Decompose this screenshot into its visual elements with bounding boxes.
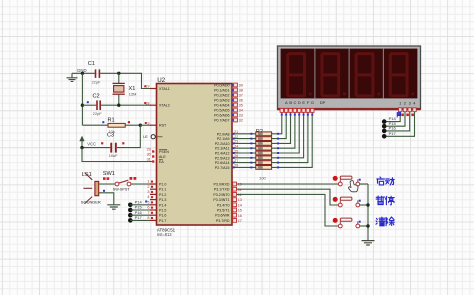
svg-text:16: 16 <box>238 214 242 218</box>
junction C2 tap <box>81 104 84 107</box>
svg-text:28: 28 <box>234 164 238 168</box>
svg-text:P3.1/TXD: P3.1/TXD <box>214 188 230 192</box>
wire sounder top pin to SW1 <box>99 183 115 185</box>
svg-text:12M: 12M <box>129 91 137 96</box>
node P15 terminal (display side) <box>382 121 397 129</box>
svg-text:33: 33 <box>239 114 243 118</box>
wire rail to C2 <box>82 104 96 106</box>
wire sounder bottom pin to ground <box>99 193 114 205</box>
wire digit4 to P17 terminal <box>384 112 414 137</box>
wire RST node down to C3 <box>117 125 140 147</box>
pin P2.2 pin23 wire to R2 <box>232 140 256 145</box>
node P15 terminal (chip side) <box>128 205 150 213</box>
wire P3.1 to button2 <box>237 189 339 205</box>
pin P3.4 pin14 <box>233 203 242 208</box>
pin P3.7 pin17 <box>233 219 242 224</box>
label AT89C51 <box>157 227 176 237</box>
pin P2.4 pin25 wire to R2 <box>232 149 256 154</box>
pin P2.7 pin28 wire to R2 <box>232 164 256 169</box>
svg-text:35: 35 <box>239 104 243 108</box>
push button SW3 <box>333 197 360 207</box>
state dot sounder <box>103 190 105 192</box>
wire C2 to XTAL2 <box>101 104 151 106</box>
svg-text:P0.4/AD4: P0.4/AD4 <box>214 104 229 108</box>
wire VCC to C3 <box>82 147 110 149</box>
svg-text:6: 6 <box>147 206 149 210</box>
state markers digit wires <box>397 113 414 118</box>
svg-text:XTAL1: XTAL1 <box>159 87 170 91</box>
pin P2.0 pin21 wire to R2 <box>232 130 256 135</box>
pin P1.5 pin6 <box>147 206 156 210</box>
svg-text:10: 10 <box>238 183 242 187</box>
wire button3 to rail <box>359 221 368 226</box>
svg-text:E: E <box>302 100 305 105</box>
wire button2 to rail <box>359 200 368 205</box>
pin XTAL1 pin19 <box>144 85 156 89</box>
wire R2.7 to display pin <box>272 112 308 163</box>
pin P3.3 pin13 <box>233 198 242 203</box>
svg-text:P17: P17 <box>389 131 397 136</box>
crystal X1 12M <box>113 73 137 105</box>
svg-text:38: 38 <box>239 89 243 93</box>
svg-text:15: 15 <box>238 209 242 213</box>
svg-text:8: 8 <box>147 216 149 220</box>
label qidong (start) <box>377 177 394 185</box>
junction VCC/C3 <box>80 146 83 149</box>
svg-text:100: 100 <box>259 175 266 180</box>
svg-text:10uF: 10uF <box>109 153 118 158</box>
pin P3.1 pin11 <box>233 187 242 192</box>
junction crystal top <box>117 72 120 75</box>
svg-text:C2: C2 <box>93 94 100 100</box>
pin P0.2 pin37 unconnected <box>232 93 243 98</box>
svg-text:P3.2/INT0: P3.2/INT0 <box>213 193 229 197</box>
wire C1 to XTAL1 corner <box>100 73 151 88</box>
svg-text:VCC: VCC <box>87 142 96 147</box>
svg-text:23: 23 <box>234 140 238 144</box>
state dot C2 <box>87 101 89 103</box>
state dot P14 chip side <box>145 201 147 203</box>
svg-text:P3.6/WR: P3.6/WR <box>215 214 230 218</box>
ground sounder <box>107 205 120 209</box>
wire button1 to rail <box>359 179 368 184</box>
svg-text:XTAL2: XTAL2 <box>159 104 170 108</box>
svg-text:U2: U2 <box>157 77 165 84</box>
ground buttons <box>362 241 375 245</box>
svg-text:SOUNDER: SOUNDER <box>81 200 101 205</box>
svg-text:R1: R1 <box>108 117 115 123</box>
resistor R2.5 <box>256 151 272 155</box>
wire SW1 to P1.0 <box>131 183 150 185</box>
state dots SW1 <box>103 177 136 180</box>
resistor network R2 label <box>256 129 263 135</box>
svg-text:P3.0/RXD: P3.0/RXD <box>214 183 230 187</box>
IC U2 AT89C51 body <box>157 77 233 225</box>
pin P1.6 pin7 <box>147 211 156 215</box>
svg-text:P1.2: P1.2 <box>159 193 166 197</box>
node GND (label) <box>77 68 87 73</box>
wire R2.2 to display pin <box>272 112 287 139</box>
svg-text:nst=813: nst=813 <box>157 232 172 237</box>
pin P1.4 pin5 <box>147 200 156 204</box>
state dots C3 <box>101 142 124 144</box>
svg-text:P0.2/AD2: P0.2/AD2 <box>214 94 229 98</box>
pin P2.1 pin22 wire to R2 <box>232 135 256 140</box>
push button SW4 <box>333 218 360 228</box>
wire VCC to EA pin31 <box>82 148 152 162</box>
svg-text:P0.6/AD6: P0.6/AD6 <box>214 114 229 118</box>
svg-text:27: 27 <box>234 159 238 163</box>
pin P0.0 pin39 unconnected <box>232 83 243 88</box>
pin P0.6 pin33 unconnected <box>232 113 243 118</box>
pin P0.4 pin35 unconnected <box>232 103 243 108</box>
display digit 2 segments <box>320 52 345 97</box>
svg-text:P0.3/AD3: P0.3/AD3 <box>214 99 229 103</box>
resistor R2.7 <box>256 161 272 165</box>
pin P2.6 pin27 wire to R2 <box>232 159 256 164</box>
display digit 3 segments <box>355 52 380 97</box>
resistor R2.6 <box>256 156 272 160</box>
resistor R2.8 <box>256 166 272 170</box>
display digit 4 segments <box>389 52 414 97</box>
pin 30 <box>147 153 155 158</box>
wire digit1 to P14 terminal <box>384 112 400 122</box>
svg-text:29: 29 <box>147 148 151 152</box>
svg-text:P1.7: P1.7 <box>159 219 166 223</box>
push button SW2 <box>333 176 360 186</box>
pin P1.1 pin2 <box>147 185 156 189</box>
node P16 terminal (chip side) <box>128 210 150 218</box>
svg-text:P1.1: P1.1 <box>159 188 166 192</box>
label qingchu (clear) <box>376 217 394 226</box>
capacitor C2 <box>93 94 103 116</box>
svg-text:17: 17 <box>238 219 242 223</box>
pin 31 <box>147 158 155 163</box>
svg-text:P3.5/T1: P3.5/T1 <box>217 209 230 213</box>
svg-text:4: 4 <box>147 195 149 199</box>
svg-text:D: D <box>298 100 301 105</box>
label R2 value 100 <box>259 175 266 180</box>
svg-text:30: 30 <box>147 153 151 157</box>
wire GND to C1 <box>72 72 95 74</box>
wire R2.1 to display pin <box>272 112 282 134</box>
svg-text:A: A <box>285 100 288 105</box>
switch SW1 SW-SPST <box>103 171 131 191</box>
svg-text:G: G <box>311 100 314 105</box>
pin 29 <box>147 148 155 153</box>
svg-text:P2.5/A13: P2.5/A13 <box>215 156 230 160</box>
wire P3.2 to button3 <box>237 194 339 226</box>
svg-text:3: 3 <box>147 190 149 194</box>
svg-text:32: 32 <box>239 119 243 123</box>
resistor R2.3 <box>256 142 272 146</box>
pin RST pin9 <box>145 121 157 125</box>
svg-text:B: B <box>289 100 292 105</box>
chip right pin names <box>213 84 230 223</box>
display segment pins <box>280 109 314 113</box>
pin P1.2 pin3 <box>147 190 156 194</box>
sounder LS1 <box>81 172 101 204</box>
pin P3.2 pin12 <box>233 193 242 198</box>
svg-text:22pF: 22pF <box>93 111 102 116</box>
svg-text:C3: C3 <box>107 133 114 139</box>
svg-text:P2.7/A15: P2.7/A15 <box>215 166 230 170</box>
capacitor C3 10uF <box>107 133 118 159</box>
svg-text:2: 2 <box>147 185 149 189</box>
pin P3.0 pin10 <box>233 182 242 187</box>
svg-text:P2.0/A8: P2.0/A8 <box>217 132 230 136</box>
junction crystal bottom <box>117 104 120 107</box>
svg-text:P2.1/A9: P2.1/A9 <box>217 137 230 141</box>
svg-text:LE: LE <box>143 135 148 139</box>
svg-text:13: 13 <box>238 198 242 202</box>
wire R2.6 to display pin <box>272 112 304 158</box>
ground <box>67 73 78 81</box>
svg-text:C1: C1 <box>88 61 95 67</box>
display digit pins <box>399 108 417 112</box>
wire R2.3 to display pin <box>272 112 291 144</box>
node P17 terminal (display side) <box>382 131 397 139</box>
svg-text:21: 21 <box>234 130 238 134</box>
pin P1.3 pin4 <box>147 195 156 199</box>
pin P0.1 pin38 unconnected <box>232 88 243 93</box>
svg-text:P1.4: P1.4 <box>159 203 166 207</box>
wire RST node to pin9 <box>140 124 151 126</box>
svg-text:31: 31 <box>147 158 151 162</box>
svg-text:24: 24 <box>234 145 238 149</box>
wire R2.5 to display pin <box>272 112 300 154</box>
svg-text:22pF: 22pF <box>92 80 101 85</box>
svg-text:DP: DP <box>320 100 326 105</box>
wire R2.8 to display pin <box>272 112 313 168</box>
svg-text:12: 12 <box>238 193 242 197</box>
pin P2.3 pin24 wire to R2 <box>232 145 256 150</box>
svg-text:P0.5/AD5: P0.5/AD5 <box>214 109 229 113</box>
svg-text:P1.0: P1.0 <box>159 183 166 187</box>
pin P2.5 pin26 wire to R2 <box>232 154 256 159</box>
pin P3.6 pin16 <box>233 213 242 218</box>
pin P0.3 pin36 unconnected <box>232 98 243 103</box>
pin P1.7 pin8 <box>147 216 156 220</box>
svg-text:34: 34 <box>239 109 243 113</box>
svg-text:25: 25 <box>234 149 238 153</box>
resistor R2.1 <box>256 132 272 136</box>
display 7SEG-MPX4 frame <box>278 46 421 110</box>
svg-text:P3.4/T0: P3.4/T0 <box>217 203 230 207</box>
label zanting (pause) <box>376 196 394 205</box>
svg-text:P0.0/AD0: P0.0/AD0 <box>214 84 229 88</box>
display digit numbers 1234 <box>399 100 416 105</box>
power VCC <box>79 136 96 148</box>
chip left pin names <box>159 87 170 223</box>
svg-text:SW1: SW1 <box>103 171 115 177</box>
svg-text:9: 9 <box>147 121 149 125</box>
svg-text:P2.6/A14: P2.6/A14 <box>215 161 230 165</box>
pin XTAL2 pin18 <box>144 101 156 105</box>
junction gnd rail <box>81 72 84 75</box>
svg-text:22: 22 <box>234 135 238 139</box>
svg-text:5: 5 <box>147 200 149 204</box>
mouse cursor hand <box>348 181 358 192</box>
svg-text:1: 1 <box>147 180 149 184</box>
pin P1.0 pin1 <box>147 180 156 184</box>
svg-text:EA: EA <box>159 160 164 164</box>
svg-text:P0.7/AD7: P0.7/AD7 <box>214 119 229 123</box>
resistor R2.4 <box>256 146 272 150</box>
svg-text:P3.3/INT1: P3.3/INT1 <box>213 198 229 202</box>
wire P3.0 to button1 <box>237 183 338 185</box>
svg-text:P2.3/A11: P2.3/A11 <box>215 147 230 151</box>
svg-text:PSEN: PSEN <box>159 150 169 154</box>
svg-text:36: 36 <box>239 99 243 103</box>
junction RST node <box>139 124 142 127</box>
svg-text:P2.4/A12: P2.4/A12 <box>215 152 230 156</box>
node P16 terminal (display side) <box>382 126 397 134</box>
state dots below display <box>281 114 313 116</box>
display digit 1 segments <box>286 52 311 97</box>
svg-text:P17: P17 <box>135 215 143 220</box>
svg-text:RST: RST <box>159 124 167 128</box>
resistor R1 10k <box>82 117 140 134</box>
capacitor C1 <box>88 61 101 85</box>
node P14 terminal (display side) <box>382 116 397 124</box>
wire digit2 to P15 terminal <box>384 112 405 126</box>
wire button common rail <box>366 184 369 240</box>
svg-text:P3.7/RD: P3.7/RD <box>216 219 230 223</box>
resistor R2.2 <box>256 137 272 141</box>
svg-text:P1.3: P1.3 <box>159 198 166 202</box>
svg-text:P2.2/A10: P2.2/A10 <box>215 142 230 146</box>
pin P3.5 pin15 <box>233 208 242 213</box>
wire digit3 to P16 terminal <box>384 112 410 131</box>
svg-text:P16: P16 <box>389 126 397 131</box>
node P17 terminal (chip side) <box>128 215 150 223</box>
svg-text:11: 11 <box>238 188 242 192</box>
svg-text:7: 7 <box>147 211 149 215</box>
svg-text:P0.1/AD1: P0.1/AD1 <box>214 89 229 93</box>
svg-text:P1.5: P1.5 <box>159 209 166 213</box>
display segment pin letters <box>285 100 326 105</box>
state dots R1 <box>102 121 130 123</box>
svg-text:26: 26 <box>234 154 238 158</box>
svg-text:14: 14 <box>238 203 242 207</box>
svg-text:ALE: ALE <box>159 155 166 159</box>
svg-text:C: C <box>294 100 297 105</box>
pin P0.5 pin34 unconnected <box>232 108 243 113</box>
svg-text:P1.6: P1.6 <box>159 214 166 218</box>
svg-text:37: 37 <box>239 94 243 98</box>
wire R2.4 to display pin <box>272 112 295 149</box>
pin LE bubble <box>143 135 162 140</box>
svg-text:SW-SPST: SW-SPST <box>113 187 130 191</box>
wire gnd rail vertical <box>81 73 83 125</box>
svg-text:39: 39 <box>239 84 243 88</box>
node P14 terminal (chip side) <box>128 199 150 207</box>
pin P0.7 pin32 unconnected <box>232 118 243 123</box>
